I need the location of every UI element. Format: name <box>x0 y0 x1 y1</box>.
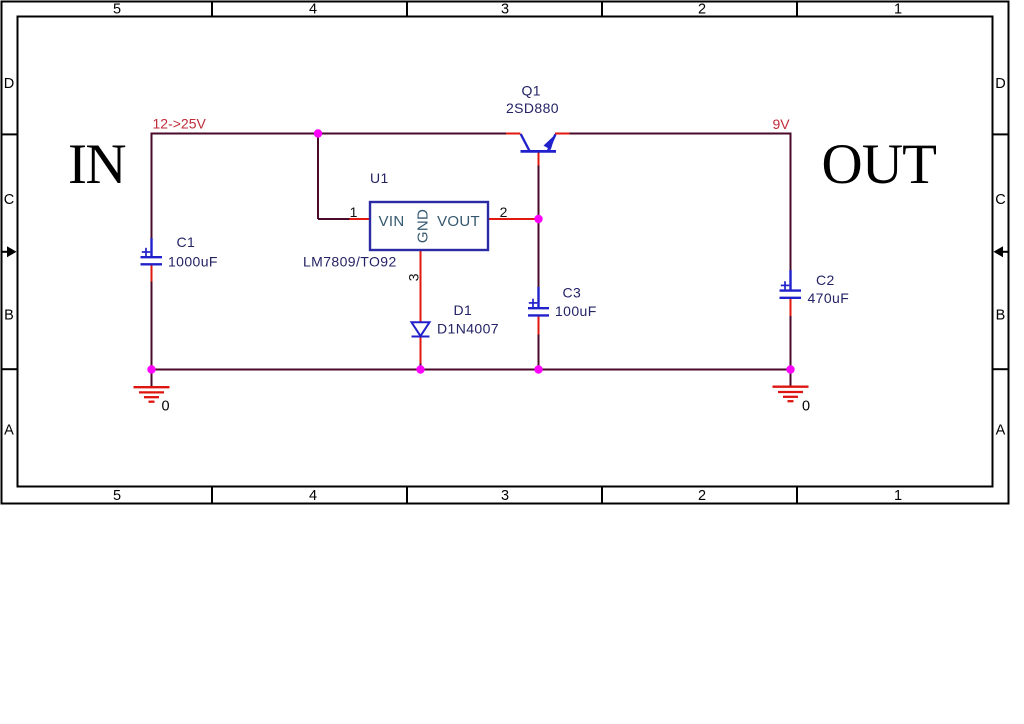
svg-text:0: 0 <box>162 399 170 415</box>
svg-text:C3: C3 <box>563 285 582 301</box>
svg-text:Q1: Q1 <box>522 83 541 99</box>
svg-text:OUT: OUT <box>822 133 938 196</box>
svg-text:2: 2 <box>500 204 508 220</box>
svg-text:4: 4 <box>309 2 317 18</box>
svg-text:C1: C1 <box>177 234 196 250</box>
svg-text:1: 1 <box>894 488 902 504</box>
svg-text:C: C <box>995 192 1005 208</box>
svg-text:VIN: VIN <box>379 213 405 230</box>
svg-text:1: 1 <box>350 204 358 220</box>
svg-text:IN: IN <box>68 133 127 196</box>
svg-text:U1: U1 <box>370 170 389 186</box>
svg-text:3: 3 <box>406 273 422 281</box>
svg-text:12->25V: 12->25V <box>153 116 207 132</box>
svg-text:A: A <box>4 423 14 439</box>
svg-text:1000uF: 1000uF <box>168 254 218 270</box>
svg-text:2: 2 <box>698 488 706 504</box>
svg-text:A: A <box>996 423 1006 439</box>
svg-text:3: 3 <box>501 488 509 504</box>
svg-text:D1: D1 <box>454 302 473 318</box>
svg-text:LM7809/TO92: LM7809/TO92 <box>303 254 397 270</box>
svg-text:2: 2 <box>698 2 706 18</box>
svg-text:D: D <box>4 76 14 92</box>
svg-text:470uF: 470uF <box>808 290 850 306</box>
svg-text:D1N4007: D1N4007 <box>437 321 499 337</box>
svg-text:B: B <box>4 308 14 324</box>
svg-text:D: D <box>995 76 1005 92</box>
svg-text:C: C <box>4 192 14 208</box>
svg-text:2SD880: 2SD880 <box>506 100 559 116</box>
svg-text:5: 5 <box>113 2 121 18</box>
svg-text:5: 5 <box>113 488 121 504</box>
svg-text:B: B <box>996 308 1006 324</box>
svg-text:4: 4 <box>309 488 317 504</box>
svg-text:1: 1 <box>894 2 902 18</box>
svg-text:C2: C2 <box>816 272 835 288</box>
svg-text:3: 3 <box>501 2 509 18</box>
svg-text:9V: 9V <box>773 116 791 132</box>
svg-text:100uF: 100uF <box>555 303 597 319</box>
svg-text:GND: GND <box>415 209 432 243</box>
svg-text:VOUT: VOUT <box>437 213 480 230</box>
svg-text:0: 0 <box>802 399 810 415</box>
